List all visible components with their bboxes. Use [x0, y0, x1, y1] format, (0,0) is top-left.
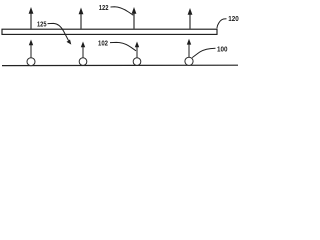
svg-text:102: 102: [98, 41, 108, 48]
lower arrow 2: [81, 42, 85, 58]
leader for 122: [111, 7, 134, 15]
ground line: [2, 64, 238, 66]
roller circle 4: [185, 57, 193, 65]
upper arrow 1: [29, 7, 34, 29]
lower arrow 3: [135, 42, 139, 58]
top bar 120 (substrate): [2, 29, 217, 34]
svg-text:122: 122: [99, 5, 109, 12]
upper arrow 2: [79, 8, 84, 29]
svg-text:100: 100: [217, 47, 228, 54]
roller circle 3: [133, 58, 141, 66]
svg-text:125: 125: [37, 22, 47, 29]
upper arrow 4: [188, 8, 193, 29]
leader for 120: [217, 19, 227, 29]
lower arrow 1: [29, 40, 33, 58]
upper arrow 3: [132, 7, 137, 29]
leader for 100: [192, 48, 215, 57]
roller circle 1: [27, 58, 35, 66]
leader for 125 (crosses bar, arrowhead below): [48, 23, 72, 44]
roller circle 2: [79, 58, 87, 66]
leader for 102: [110, 42, 136, 50]
svg-text:120: 120: [228, 16, 239, 23]
lower arrow 4: [187, 39, 191, 57]
